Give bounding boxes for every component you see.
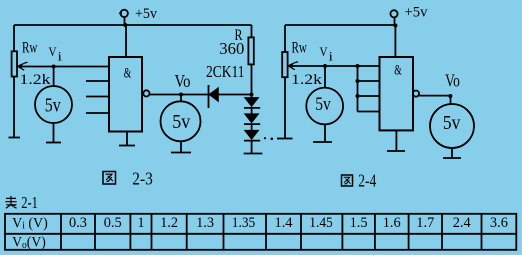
svg-text:2.4: 2.4 — [453, 215, 471, 231]
svg-text:i: i — [58, 49, 63, 64]
svg-text:1.45: 1.45 — [309, 215, 333, 231]
svg-text:&: & — [124, 65, 132, 81]
svg-text:1.6: 1.6 — [383, 215, 401, 231]
svg-text:2-1: 2-1 — [21, 193, 38, 212]
svg-text:1.7: 1.7 — [416, 215, 434, 231]
svg-text:V: V — [320, 45, 328, 59]
svg-text:360: 360 — [219, 39, 244, 58]
svg-text:5v: 5v — [443, 112, 461, 134]
svg-text:3.6: 3.6 — [490, 215, 508, 231]
svg-text:1: 1 — [138, 215, 145, 231]
svg-text:5v: 5v — [172, 111, 190, 133]
svg-text:1.35: 1.35 — [232, 215, 256, 231]
svg-text:Vi (V): Vi (V) — [12, 216, 48, 232]
svg-text:0.3: 0.3 — [69, 215, 87, 231]
svg-text:2-4: 2-4 — [358, 171, 376, 191]
svg-text:+5v: +5v — [405, 5, 429, 21]
svg-text:Vo: Vo — [175, 71, 191, 91]
svg-text:i: i — [329, 49, 334, 64]
svg-text:2CK11: 2CK11 — [206, 62, 245, 81]
svg-text:&: & — [394, 63, 402, 79]
svg-text:1.4: 1.4 — [275, 215, 293, 231]
svg-text:1.5: 1.5 — [350, 215, 368, 231]
svg-text:Rw: Rw — [22, 39, 38, 56]
svg-text:2-3: 2-3 — [132, 168, 153, 188]
svg-text:Rw: Rw — [292, 39, 308, 56]
svg-text:1.2k: 1.2k — [291, 72, 323, 88]
svg-text:1.3: 1.3 — [196, 215, 214, 231]
svg-text:Vo: Vo — [445, 71, 460, 91]
svg-text:Vo(V): Vo(V) — [12, 235, 46, 251]
svg-text:+5v: +5v — [135, 6, 157, 22]
svg-text:5v: 5v — [45, 96, 61, 117]
svg-text:5v: 5v — [315, 94, 331, 115]
svg-text:0.5: 0.5 — [104, 215, 122, 231]
svg-text:V: V — [49, 45, 57, 59]
svg-text:1.2: 1.2 — [160, 215, 178, 231]
svg-text:1.2k: 1.2k — [20, 72, 52, 88]
